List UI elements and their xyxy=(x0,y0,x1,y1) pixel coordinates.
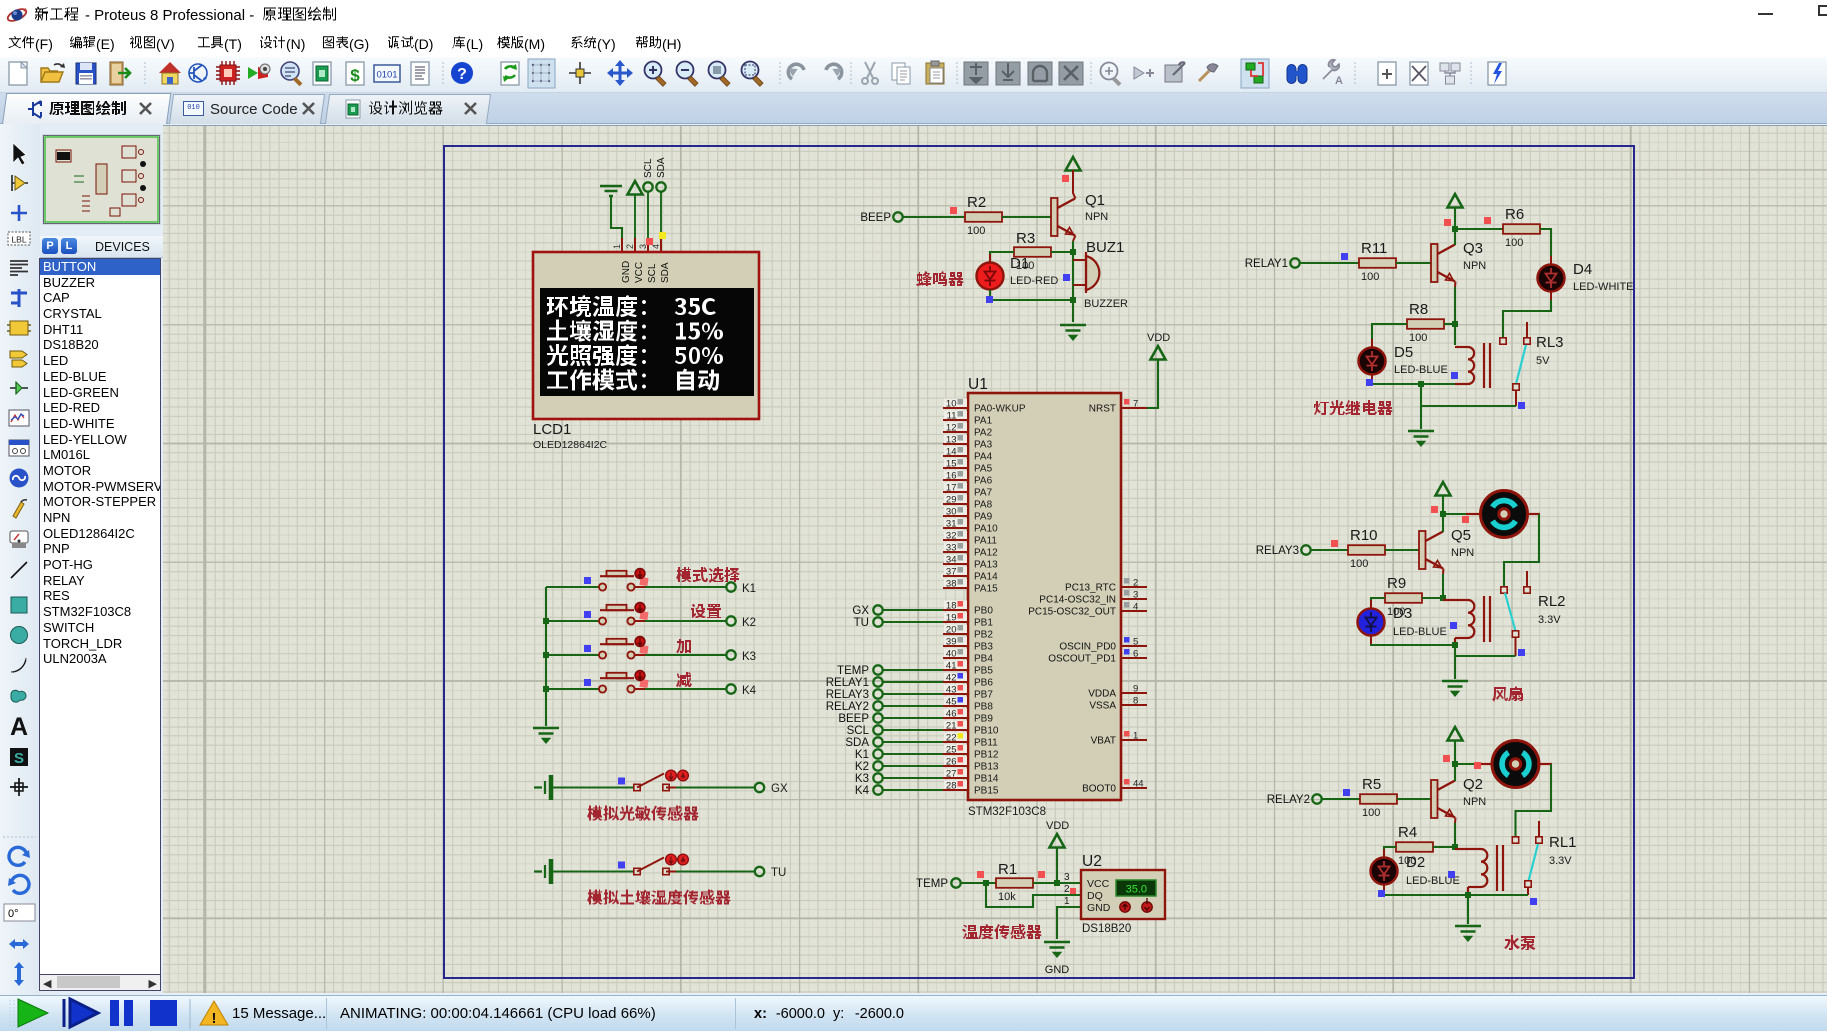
pin 18 PB0 xyxy=(943,601,993,617)
logic state square (Q5 collector) xyxy=(1431,506,1438,513)
svg-text:PA12: PA12 xyxy=(974,548,998,559)
label U2 xyxy=(1082,853,1102,870)
svg-text:RELAY1: RELAY1 xyxy=(1245,258,1288,270)
wire RELAY3 to R10 xyxy=(1311,549,1348,551)
svg-text:1: 1 xyxy=(1133,731,1138,742)
OLED text line2 xyxy=(547,320,723,342)
wire BEEP to R2 xyxy=(903,216,965,218)
pin 33 PA12 xyxy=(943,543,998,559)
terminal TU (U1) xyxy=(854,617,883,629)
wire TEMP to U1 xyxy=(883,669,943,671)
svg-text:39: 39 xyxy=(946,637,957,648)
value D3 LED-BLUE xyxy=(1393,626,1447,638)
pin 7 NRST xyxy=(1089,399,1147,415)
svg-text:K4: K4 xyxy=(742,685,757,697)
svg-text:42: 42 xyxy=(946,673,957,684)
svg-text:12: 12 xyxy=(946,423,957,434)
svg-text:5V: 5V xyxy=(1536,355,1550,367)
wire D5 bottom rail xyxy=(1372,382,1470,384)
pin 15 PA5 xyxy=(943,459,993,475)
annotation 设置 xyxy=(691,604,721,618)
pin 9 VDDA xyxy=(1088,684,1147,700)
pin 21 PB10 xyxy=(943,721,999,737)
wire RELAY2 to R5 xyxy=(1322,798,1360,800)
svg-text:40: 40 xyxy=(946,649,957,660)
svg-text:32: 32 xyxy=(946,531,957,542)
relay RL1 lever xyxy=(1529,844,1539,881)
pin number 1 (LCD1) xyxy=(612,244,622,249)
pin 27 PB14 xyxy=(943,769,999,785)
OLED text line4 xyxy=(547,369,719,391)
svg-text:PA1: PA1 xyxy=(974,416,993,427)
svg-text:PA6: PA6 xyxy=(974,476,993,487)
svg-text:0101: 0101 xyxy=(376,70,397,81)
annotation 加 xyxy=(676,639,691,653)
resistor R8 xyxy=(1407,319,1444,329)
wire R9 to emitter node xyxy=(1422,597,1443,599)
svg-text:SCL: SCL xyxy=(847,725,870,737)
svg-text:15: 15 xyxy=(946,459,957,470)
resistor R11 xyxy=(1359,258,1396,268)
resistor R1 xyxy=(996,878,1033,888)
svg-text:PB3: PB3 xyxy=(974,642,993,653)
svg-text:PA14: PA14 xyxy=(974,572,998,583)
terminal GX (sensor) xyxy=(755,783,788,795)
svg-text:3.3V: 3.3V xyxy=(1538,614,1561,626)
button K2 xyxy=(599,603,649,625)
terminal RELAY3 xyxy=(1256,545,1311,557)
ic U2 DS18B20 body xyxy=(1081,870,1165,919)
svg-text:R2: R2 xyxy=(967,194,986,211)
power VDD arrow (Q3) xyxy=(1448,194,1463,208)
value R11 100 xyxy=(1361,271,1379,283)
svg-text:29: 29 xyxy=(946,495,957,506)
led D1 LED-RED xyxy=(977,254,1004,298)
svg-text:RELAY3: RELAY3 xyxy=(1256,545,1299,557)
svg-text:Q2: Q2 xyxy=(1463,776,1483,793)
switch (sensor GX) xyxy=(634,770,689,791)
wire Q2 emitter down xyxy=(1454,818,1457,848)
wire rail to ground (RL1) xyxy=(1467,895,1469,924)
pin 43 PB7 xyxy=(943,685,993,701)
resistor R6 xyxy=(1503,224,1540,234)
svg-text:VDD: VDD xyxy=(1147,332,1170,344)
svg-text:25: 25 xyxy=(946,745,957,756)
label Q1 xyxy=(1085,192,1105,209)
wire button K4 to terminal xyxy=(635,688,727,690)
terminal K2 (U1) xyxy=(855,761,883,773)
OLED screen xyxy=(540,288,754,396)
svg-text:D1: D1 xyxy=(1010,255,1029,272)
terminal BEEP xyxy=(860,212,902,224)
svg-text:PB2: PB2 xyxy=(974,630,993,641)
logic state square (pump motor left) xyxy=(1474,762,1481,769)
wire Q5 emitter down xyxy=(1442,569,1445,599)
wire R5 to Q2 base xyxy=(1397,798,1431,800)
svg-text:28: 28 xyxy=(946,781,957,792)
wire Q1 emitter node down xyxy=(1072,252,1074,322)
svg-text:LED-WHITE: LED-WHITE xyxy=(1573,281,1634,293)
wire D3 bottom rail xyxy=(1371,644,1455,645)
svg-text:A: A xyxy=(10,713,28,741)
ic U1 body xyxy=(968,393,1121,800)
terminal TEMP (U2) xyxy=(916,878,961,890)
svg-text:K2: K2 xyxy=(855,761,869,773)
svg-text:46: 46 xyxy=(946,709,957,720)
svg-text:VCC: VCC xyxy=(1087,878,1110,890)
value BUZZER xyxy=(1084,298,1128,310)
pin label DQ (U2) xyxy=(1087,890,1103,902)
svg-text:PB13: PB13 xyxy=(974,762,999,773)
resistor R4 xyxy=(1396,842,1433,852)
wire D4 to relay contact xyxy=(1503,300,1551,338)
pin 38 PA15 xyxy=(943,579,998,595)
terminal SDA xyxy=(656,182,665,252)
svg-text:PB11: PB11 xyxy=(974,738,998,749)
pin label GND (U2) xyxy=(1087,902,1111,914)
svg-text:D2: D2 xyxy=(1406,854,1425,871)
relay RL1 coil xyxy=(1455,845,1503,895)
svg-text:Q3: Q3 xyxy=(1463,240,1483,257)
pin 10 PA0-WKUP xyxy=(943,399,1026,415)
value RL1 3.3V xyxy=(1549,855,1572,867)
svg-text:RELAY1: RELAY1 xyxy=(826,677,869,689)
battery (sensor TU) xyxy=(534,859,551,884)
svg-text:PA11: PA11 xyxy=(974,536,997,547)
svg-text:38: 38 xyxy=(946,579,957,590)
button K3 xyxy=(599,637,649,659)
resistor R5 xyxy=(1360,794,1397,804)
node Q2 emitter junction xyxy=(1452,844,1458,850)
svg-text:3.3V: 3.3V xyxy=(1549,855,1572,867)
wire motor to contact (pump) xyxy=(1516,764,1553,837)
logic state square (RL1 coil) xyxy=(1448,871,1455,878)
svg-text:BEEP: BEEP xyxy=(860,212,891,224)
value R9 100 xyxy=(1387,606,1405,618)
buzzer BUZ1 xyxy=(1073,252,1099,293)
wire lever down (RL2) xyxy=(1515,637,1517,656)
wire lever down (RL1) xyxy=(1527,887,1529,895)
U2 down button xyxy=(1142,898,1152,912)
terminal SCL xyxy=(643,182,652,252)
wire Q1 collector to VDD xyxy=(1073,170,1076,199)
svg-text:SDA: SDA xyxy=(656,157,667,178)
annotation 减 xyxy=(676,672,692,687)
logic state square (RL2 coil) xyxy=(1450,622,1457,629)
node D2 rail junction xyxy=(1465,892,1471,898)
label R2 xyxy=(967,194,986,211)
pin 2 PC13_RTC xyxy=(1065,578,1147,594)
relay RL1 contact pads xyxy=(1512,837,1542,843)
svg-text:NPN: NPN xyxy=(1463,796,1486,808)
svg-text:TU: TU xyxy=(771,867,786,879)
label RL3 xyxy=(1536,334,1564,351)
svg-text:RL3: RL3 xyxy=(1536,334,1564,351)
svg-text:LED-BLUE: LED-BLUE xyxy=(1394,364,1448,376)
relay RL1 lever pad xyxy=(1525,881,1531,887)
svg-text:PA10: PA10 xyxy=(974,524,998,535)
switch (sensor TU) xyxy=(634,854,689,875)
transistor Q1 xyxy=(1051,198,1075,236)
svg-text:PA8: PA8 xyxy=(974,500,993,511)
svg-text:BUZZER: BUZZER xyxy=(1084,298,1128,310)
terminal RELAY1 xyxy=(1245,258,1300,270)
wire R4 to emitter node xyxy=(1433,846,1455,848)
wire LCD1 GND pin1 xyxy=(611,196,622,252)
pin 6 OSCOUT_PD1 xyxy=(1048,649,1147,665)
terminal RELAY3 (U1) xyxy=(826,689,883,701)
wire R6 to D4 xyxy=(1540,229,1551,256)
pin number 4 (LCD1) xyxy=(651,244,661,249)
wire NRST to VDD xyxy=(1147,359,1158,408)
svg-text:NPN: NPN xyxy=(1085,211,1108,223)
ground (BUZ1) xyxy=(1060,325,1086,339)
svg-text:BEEP: BEEP xyxy=(838,713,869,725)
wire collector to motor (pump) xyxy=(1455,763,1493,765)
pin label SCL (LCD1) xyxy=(647,263,658,283)
pin 40 PB4 xyxy=(943,649,993,665)
svg-text:PB7: PB7 xyxy=(974,690,993,701)
wire RELAY1 to U1 xyxy=(883,681,943,683)
value R10 100 xyxy=(1350,558,1368,570)
svg-text:PA2: PA2 xyxy=(974,428,993,439)
svg-text:LED-BLUE: LED-BLUE xyxy=(1393,626,1447,638)
svg-text:SCL: SCL xyxy=(643,158,654,178)
svg-text:PB1: PB1 xyxy=(974,618,993,629)
logic state square (R1 right) xyxy=(1038,871,1045,878)
pin 8 VSSA xyxy=(1089,696,1147,712)
value Q3 NPN xyxy=(1463,260,1486,272)
wire Q2 collector to VDD xyxy=(1454,740,1456,781)
svg-text:PB0: PB0 xyxy=(974,606,993,617)
svg-text:K1: K1 xyxy=(742,583,756,595)
svg-text:R10: R10 xyxy=(1350,527,1378,544)
power VDD arrow (Q1) xyxy=(1066,157,1081,171)
logic state square (K4) xyxy=(584,679,591,686)
svg-text:RELAY3: RELAY3 xyxy=(826,689,869,701)
wire switch to terminal TU xyxy=(666,871,755,873)
logic state square (RL3 coil bottom) xyxy=(1451,372,1458,379)
label RL2 xyxy=(1538,593,1566,610)
OLED LCD1 body xyxy=(533,252,759,419)
svg-text:30: 30 xyxy=(946,507,957,518)
logic state square (BEEP wire) xyxy=(950,207,957,214)
svg-text:33: 33 xyxy=(946,543,957,554)
transistor Q3 xyxy=(1431,244,1455,282)
wire Q3 collector to VDD xyxy=(1454,207,1456,245)
svg-text:18: 18 xyxy=(946,601,957,612)
svg-text:NPN: NPN xyxy=(1451,547,1474,559)
svg-text:9: 9 xyxy=(1133,684,1138,695)
value R8 100 xyxy=(1409,332,1427,344)
pin 17 PA7 xyxy=(943,483,993,499)
ground (buttons) xyxy=(533,728,559,742)
resistor R9 xyxy=(1385,593,1422,603)
annotation 温度传感器 xyxy=(962,924,1042,939)
svg-text:RL2: RL2 xyxy=(1538,593,1566,610)
wire collector to R6 xyxy=(1455,228,1503,230)
svg-text:VSSA: VSSA xyxy=(1089,701,1116,712)
relay RL2 lever xyxy=(1505,593,1516,631)
pin 26 PB13 xyxy=(943,757,999,773)
terminal K1 xyxy=(726,582,756,595)
power VDD arrow (Q5) xyxy=(1436,482,1451,496)
transistor Q2 xyxy=(1431,780,1455,818)
svg-text:RELAY2: RELAY2 xyxy=(1267,794,1310,806)
node Q3 collector junction xyxy=(1452,226,1458,232)
terminal SCL (U1) xyxy=(847,725,883,737)
pin 37 PA14 xyxy=(943,567,998,583)
label U1 xyxy=(968,376,988,393)
pin number 3 (LCD1) xyxy=(638,244,648,249)
svg-text:RL1: RL1 xyxy=(1549,834,1577,851)
svg-text:RELAY2: RELAY2 xyxy=(826,701,869,713)
ground (U2) xyxy=(1044,942,1070,976)
svg-text:R5: R5 xyxy=(1362,776,1381,793)
ground (RL2) xyxy=(1442,681,1468,695)
relay RL2 contact pads xyxy=(1501,587,1530,593)
label RL1 xyxy=(1549,834,1577,851)
svg-text:OLED12864I2C: OLED12864I2C xyxy=(533,439,608,451)
svg-text:GND: GND xyxy=(1087,902,1111,914)
wire K2 to U1 xyxy=(883,765,943,767)
pin label VCC (LCD1) xyxy=(634,262,645,283)
label D3 xyxy=(1393,605,1412,622)
node D5 rail junction xyxy=(1418,381,1424,387)
motor pump xyxy=(1492,741,1539,788)
logic state square (K2) xyxy=(584,611,591,618)
svg-text:K4: K4 xyxy=(855,785,870,797)
value R3 100 xyxy=(1016,260,1034,272)
svg-text:PA3: PA3 xyxy=(974,440,993,451)
wire R9 to D3 xyxy=(1371,598,1385,607)
svg-text:PA13: PA13 xyxy=(974,560,998,571)
wire rail to ground (RL2) xyxy=(1454,656,1456,679)
svg-text:PB4: PB4 xyxy=(974,654,993,665)
pin 5 OSCIN_PD0 xyxy=(1059,637,1147,653)
terminal K4 (U1) xyxy=(855,785,883,797)
pin 30 PA9 xyxy=(943,507,993,523)
logic state square (K3) xyxy=(584,645,591,652)
pin 34 PA13 xyxy=(943,555,998,571)
svg-text:PB9: PB9 xyxy=(974,714,993,725)
label R9 xyxy=(1387,575,1406,592)
logic state square (U2 DQ) xyxy=(1070,888,1076,894)
power VDD arrow (U2) xyxy=(1046,820,1069,848)
svg-text:35.0: 35.0 xyxy=(1126,884,1147,896)
svg-text:5: 5 xyxy=(1133,637,1138,648)
wire rail to lever bottom (RL1) xyxy=(1468,894,1528,896)
terminal RELAY2 (U1) xyxy=(826,701,883,713)
svg-text:PC14-OSC32_IN: PC14-OSC32_IN xyxy=(1039,595,1116,606)
svg-text:R8: R8 xyxy=(1409,301,1428,318)
label R1 xyxy=(998,861,1017,878)
resistor R3 xyxy=(1014,247,1051,257)
svg-text:PC15-OSC32_OUT: PC15-OSC32_OUT xyxy=(1028,607,1116,618)
logic state square pin4 xyxy=(659,232,666,239)
logic state square (R1 left) xyxy=(977,871,984,878)
battery (sensor GX) xyxy=(534,775,551,800)
terminal K2 xyxy=(726,616,756,629)
annotation 模拟光敏传感器 xyxy=(587,806,699,821)
svg-text:$: $ xyxy=(350,66,360,85)
annotation 模式选择 xyxy=(676,567,740,583)
wire switch to terminal GX xyxy=(666,787,755,789)
label SDA xyxy=(656,157,667,178)
svg-text:STM32F103C8: STM32F103C8 xyxy=(968,806,1046,818)
wire GX to U1 xyxy=(883,609,943,611)
wire R11 to Q3 base xyxy=(1396,262,1431,264)
sheet border xyxy=(444,146,1634,978)
OLED text line1 xyxy=(547,295,716,317)
wire VDD to VCC node xyxy=(1056,847,1058,883)
pin 22 PB11 xyxy=(943,733,998,749)
svg-text:TU: TU xyxy=(854,617,869,629)
pin number 2 (U2) xyxy=(1064,884,1070,895)
relay RL3 coil xyxy=(1455,343,1490,388)
terminal RELAY2 xyxy=(1267,794,1322,806)
pin 42 PB6 xyxy=(943,673,993,689)
label D2 xyxy=(1406,854,1425,871)
pin 29 PA8 xyxy=(943,495,993,511)
svg-text:31: 31 xyxy=(946,519,957,530)
label D5 xyxy=(1394,344,1413,361)
pin 12 PA2 xyxy=(943,423,993,439)
svg-text:27: 27 xyxy=(946,769,957,780)
pin number 2 (LCD1) xyxy=(625,244,635,249)
node buzzer bottom junction xyxy=(1070,297,1076,303)
pin label VCC (U2) xyxy=(1087,878,1110,890)
node D3 rail junction xyxy=(1452,642,1458,648)
svg-text:U1: U1 xyxy=(968,376,988,393)
logic state square (sensor TU) xyxy=(618,862,625,869)
svg-text:GX: GX xyxy=(771,783,788,795)
wire collector to motor xyxy=(1443,513,1481,515)
svg-text:VDDA: VDDA xyxy=(1088,689,1116,700)
resistor R2 xyxy=(965,212,1002,222)
wire Q1 emitter to node xyxy=(1073,236,1076,253)
svg-text:PB15: PB15 xyxy=(974,786,999,797)
svg-text:BUZ1: BUZ1 xyxy=(1086,239,1124,256)
terminal TEMP (U1) xyxy=(837,665,883,677)
ground (LCD1) xyxy=(600,186,622,196)
svg-text:OSCOUT_PD1: OSCOUT_PD1 xyxy=(1048,654,1116,665)
terminal RELAY1 (U1) xyxy=(826,677,883,689)
value DS18B20 xyxy=(1082,923,1131,935)
pin 3 PC14-OSC32_IN xyxy=(1039,590,1147,606)
wire D1 to R3 xyxy=(990,252,1014,262)
logic state square (D2 bottom) xyxy=(1378,890,1385,897)
ground (RL1) xyxy=(1455,926,1481,940)
wire TEMP to R1 xyxy=(961,882,996,884)
svg-text:45: 45 xyxy=(946,697,957,708)
pin 41 PB5 xyxy=(943,661,993,677)
value Q5 NPN xyxy=(1451,547,1474,559)
logic state square (K1) xyxy=(584,577,591,584)
button K4 xyxy=(599,671,649,693)
wire K4 to U1 xyxy=(883,789,943,791)
wire RL3 contact stub xyxy=(1526,322,1528,338)
node Q5 emitter junction xyxy=(1440,595,1446,601)
svg-text:7: 7 xyxy=(1133,399,1138,410)
pin 14 PA4 xyxy=(943,447,993,463)
logic state square (RELAY2 wire) xyxy=(1343,789,1350,796)
svg-text:PA15: PA15 xyxy=(974,584,998,595)
wire D2 bottom rail xyxy=(1384,893,1468,895)
motor fan xyxy=(1481,491,1528,538)
pin 44 BOOT0 xyxy=(1082,779,1147,795)
svg-text:PB12: PB12 xyxy=(974,750,999,761)
